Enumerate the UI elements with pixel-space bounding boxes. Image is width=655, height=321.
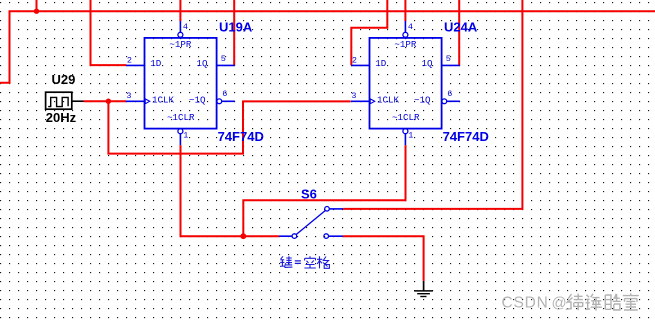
svg-text:CSDN: CSDN: [502, 294, 549, 311]
svg-text:U29: U29: [52, 72, 76, 87]
svg-text:20Hz: 20Hz: [46, 110, 77, 125]
svg-text:U24A: U24A: [444, 19, 478, 34]
svg-text:U19A: U19A: [219, 19, 253, 34]
svg-text:@: @: [552, 294, 567, 311]
svg-text:74F74D: 74F74D: [443, 129, 489, 144]
svg-text:74F74D: 74F74D: [218, 129, 264, 144]
svg-text:S6: S6: [301, 187, 317, 202]
